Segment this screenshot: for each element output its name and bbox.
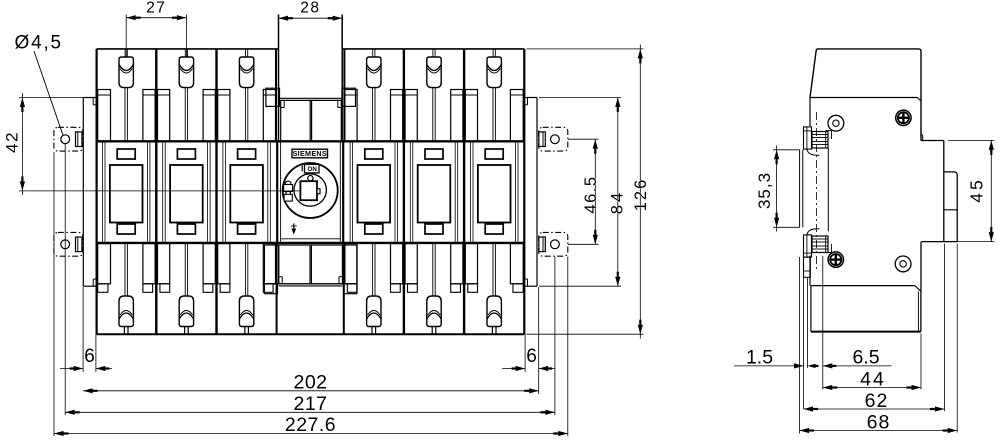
svg-text:6: 6 — [526, 346, 537, 367]
svg-text:46.5: 46.5 — [582, 175, 600, 213]
svg-text:68: 68 — [867, 411, 891, 433]
svg-text:1.5: 1.5 — [746, 346, 773, 368]
svg-text:ON: ON — [308, 166, 318, 173]
svg-text:45: 45 — [966, 177, 986, 202]
svg-text:6: 6 — [84, 346, 95, 367]
svg-text:6.5: 6.5 — [852, 346, 879, 368]
svg-text:126: 126 — [632, 178, 650, 212]
svg-text:44: 44 — [860, 368, 886, 390]
svg-text:35,3: 35,3 — [755, 172, 774, 209]
svg-text:84: 84 — [608, 190, 626, 214]
svg-text:217: 217 — [293, 393, 327, 415]
svg-text:227.6: 227.6 — [285, 414, 336, 436]
svg-text:27: 27 — [146, 0, 166, 16]
svg-text:202: 202 — [293, 371, 327, 393]
svg-text:Ø4,5: Ø4,5 — [15, 33, 63, 54]
svg-text:SIEMENS: SIEMENS — [293, 149, 327, 158]
svg-text:28: 28 — [300, 0, 320, 16]
svg-text:62: 62 — [865, 390, 889, 412]
svg-text:42: 42 — [3, 131, 22, 153]
